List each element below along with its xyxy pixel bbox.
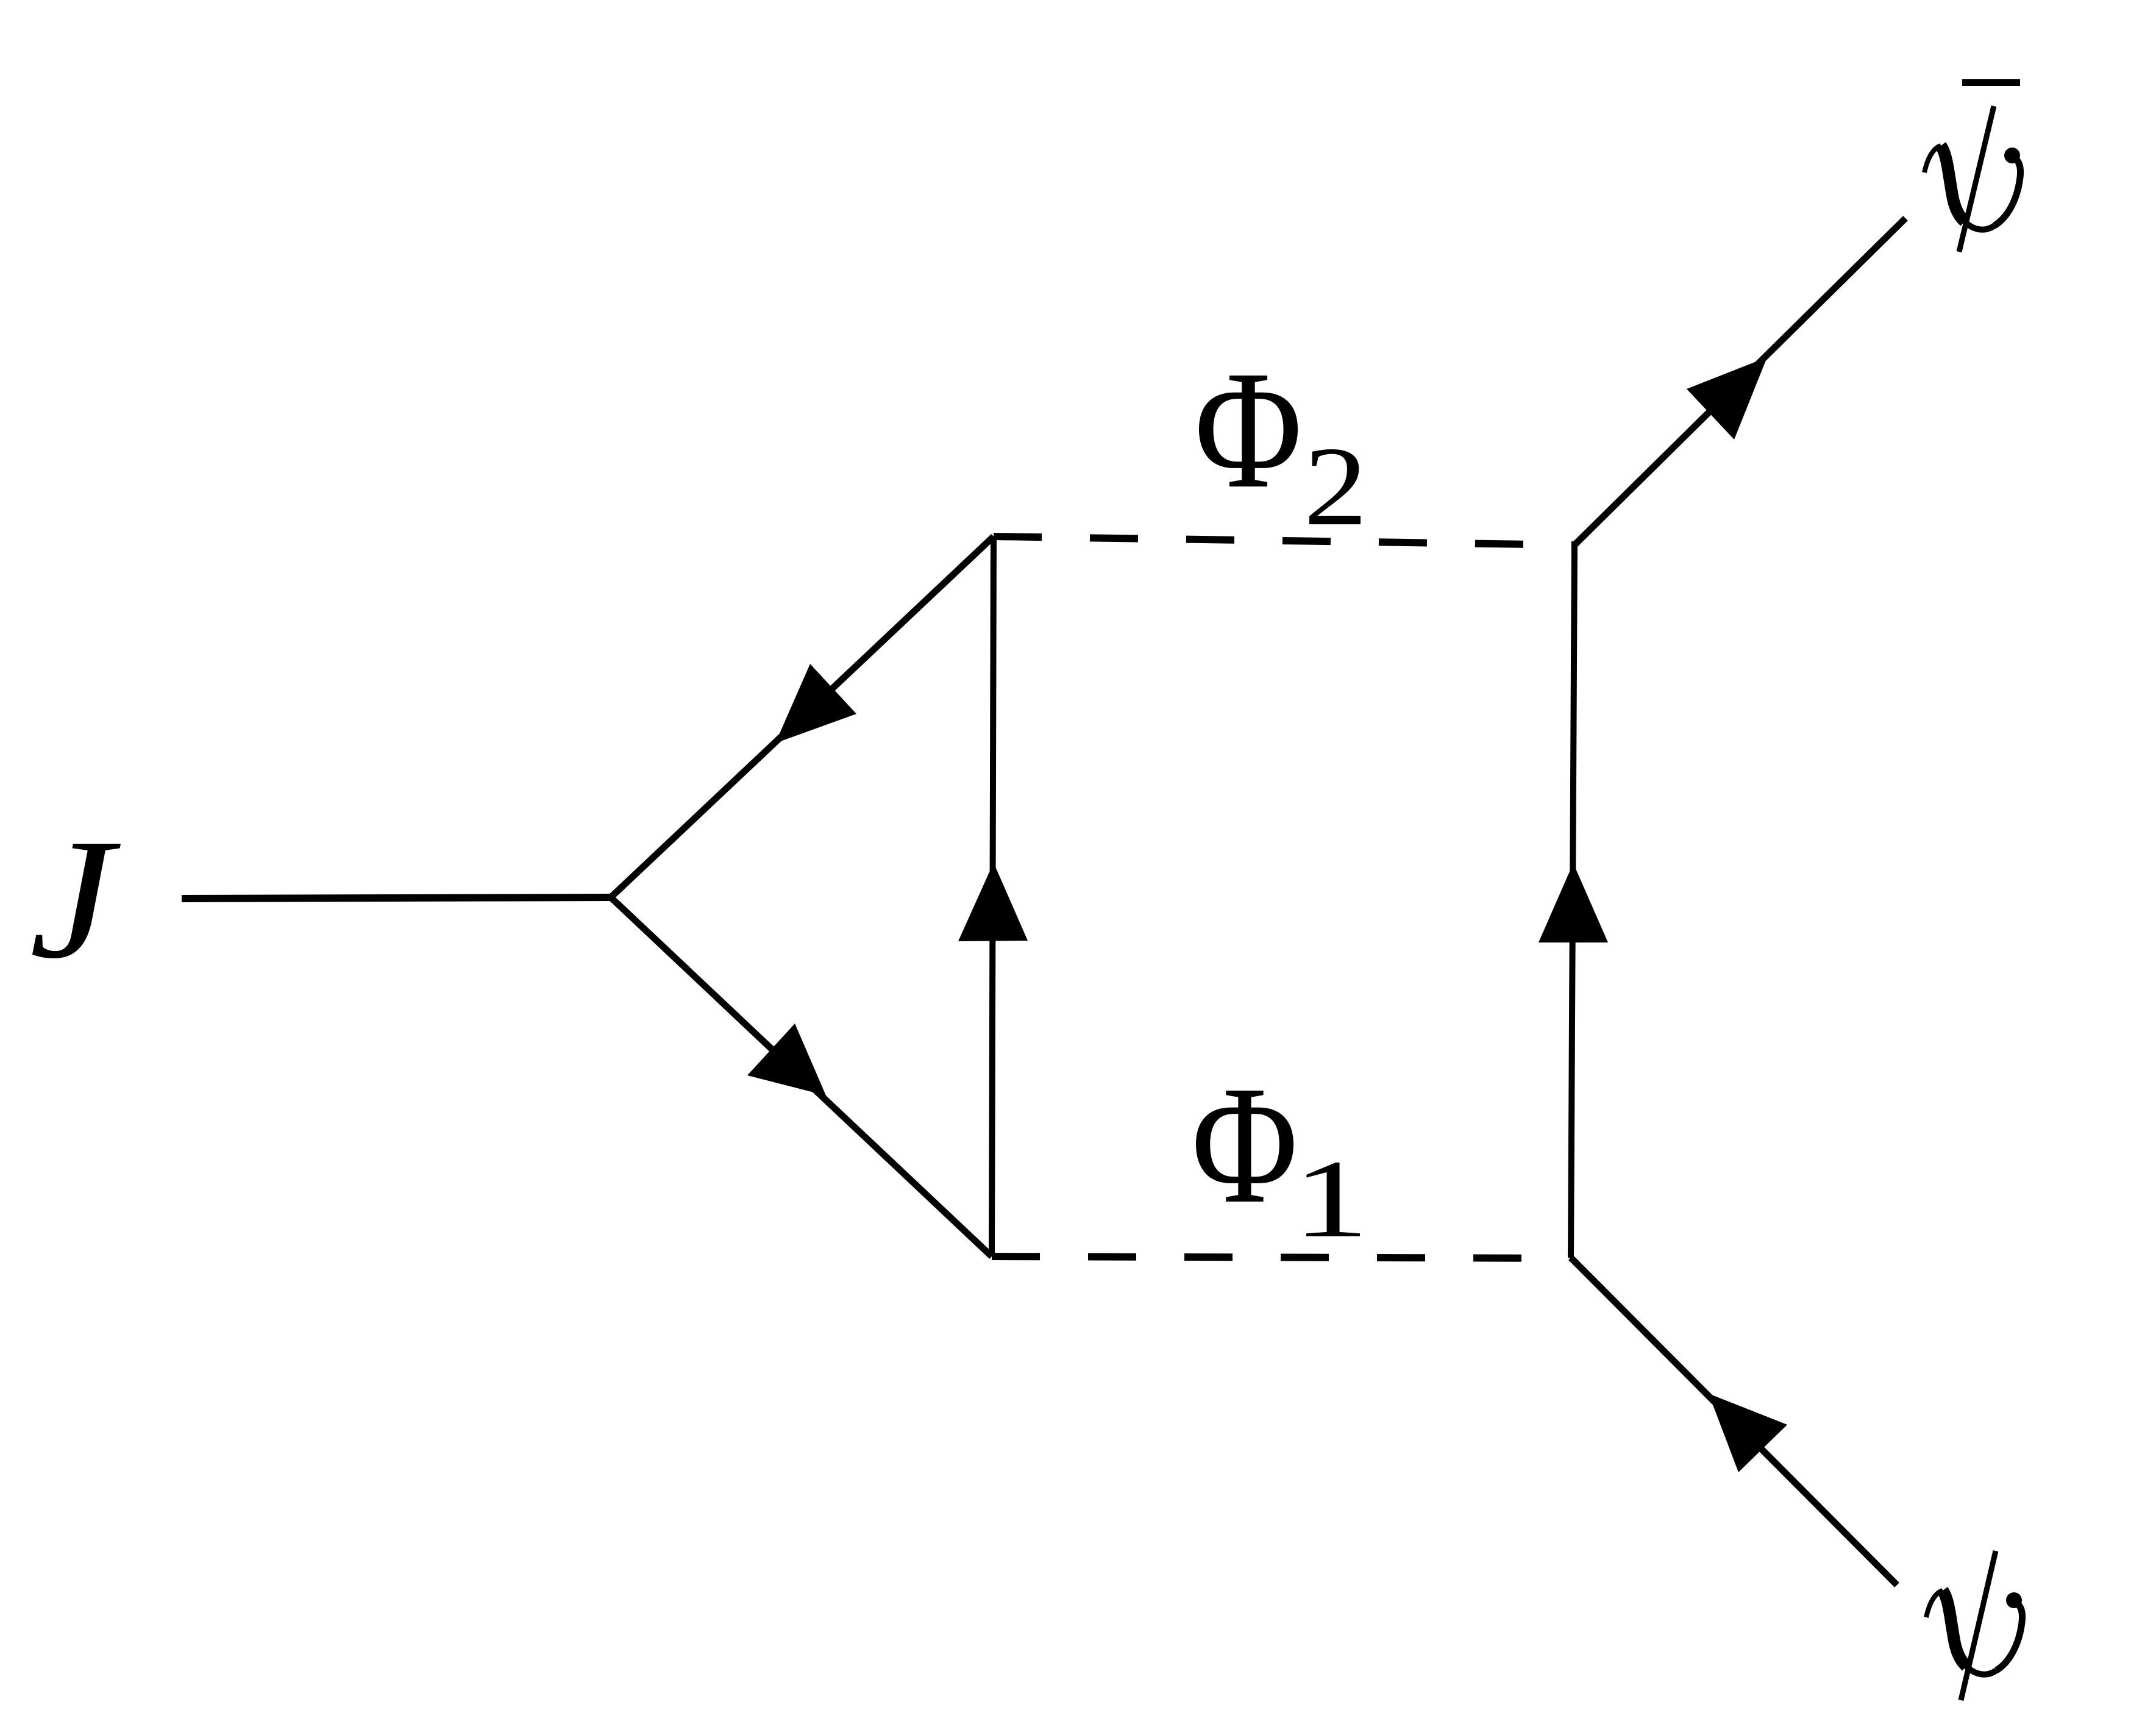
arrow on right internal line (pointing up) (1539, 863, 1608, 942)
wire: fermion loop upper diagonal (T to V1) (611, 536, 994, 897)
svg-text:1: 1 (1293, 1138, 1369, 1261)
wire: fermion loop vertical line (B to T) (992, 536, 994, 1256)
arrow on psi line (pointing up-left toward vertex) (1709, 1394, 1787, 1472)
label psi-bar : psi glyph (1924, 106, 2021, 252)
wire: outgoing antifermion line psi-bar (TR up-right) (1574, 218, 1905, 545)
arrow on lower diagonal (pointing toward bottom vertex) (747, 1024, 826, 1095)
arrow on psi-bar line (pointing up-right) (1687, 357, 1767, 440)
arrow on loop vertical line (pointing up) (958, 863, 1028, 941)
svg-text:Φ: Φ (1192, 1051, 1298, 1239)
wire: right fermion internal line (BR to TR) (1571, 545, 1574, 1258)
wire: fermion loop lower diagonal (V1 to B) (611, 897, 992, 1256)
svg-text:2: 2 (1304, 424, 1368, 549)
wire: external current line J (182, 897, 611, 899)
svg-text:Φ: Φ (1195, 336, 1303, 523)
wire: scalar propagator Phi1 dashed line (B to BR) (992, 1256, 1571, 1258)
svg-text:J: J (29, 804, 121, 995)
label psi-bar : overline bar (1962, 79, 2020, 86)
wire: outgoing fermion line psi (BR down-right) (1571, 1258, 1897, 1585)
wire: scalar propagator Phi2 dashed line (T to TR) (994, 536, 1574, 545)
label psi (bottom right) (1926, 1551, 2023, 1700)
arrow on upper diagonal (pointing toward left vertex) (775, 664, 856, 743)
